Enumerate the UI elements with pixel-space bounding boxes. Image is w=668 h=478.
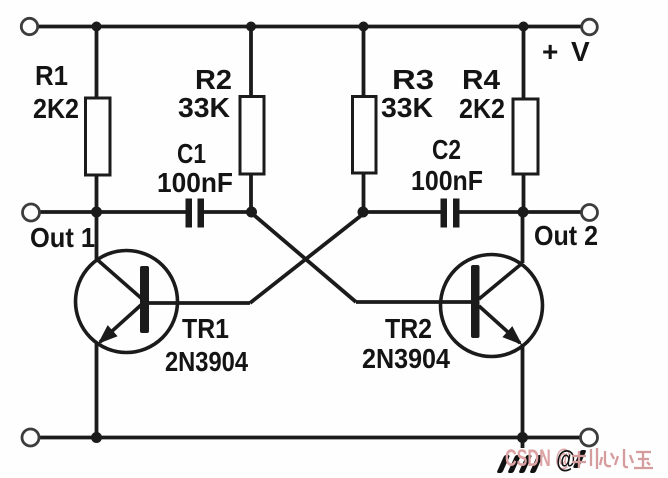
node B (R3/C2): [358, 207, 369, 218]
node A (R2/C1): [246, 207, 257, 218]
svg-text:@: @: [556, 446, 575, 474]
wire cross-couple diagonal node B to TR1 base: [250, 213, 365, 304]
wire Out1 rail left segment: [40, 210, 186, 214]
svg-text:R2: R2: [195, 64, 232, 95]
wire R3 bottom lead: [362, 173, 366, 212]
wire R1 bottom lead: [95, 175, 99, 212]
svg-text:33K: 33K: [381, 92, 433, 123]
node top R2: [246, 22, 256, 32]
terminal bottom left: [22, 429, 39, 446]
resistor R1: [86, 98, 111, 175]
wire TR2 emitter stub below rail: [521, 438, 525, 449]
svg-text:C1: C1: [177, 138, 206, 169]
wire top rail: [38, 25, 582, 29]
node top R3: [359, 22, 369, 32]
wire bottom rail: [39, 436, 581, 440]
wire R1 top lead: [95, 27, 99, 99]
transistor TR2: [441, 255, 543, 357]
resistor R3: [353, 97, 377, 174]
terminal bottom right: [581, 429, 598, 446]
svg-text:Out 2: Out 2: [534, 220, 598, 251]
node Out2 collector: [518, 207, 529, 218]
wire TR1 base horizontal: [149, 301, 250, 305]
terminal Out 1: [23, 204, 40, 221]
wire Out1 rail right segment (C1 to node): [204, 210, 252, 214]
wire cross-couple diagonal node A to TR2 base: [251, 213, 356, 303]
svg-text:2N3904: 2N3904: [362, 343, 450, 374]
capacitor C1: [186, 199, 205, 228]
wire R4 top lead: [522, 27, 526, 100]
svg-text:100nF: 100nF: [157, 167, 233, 198]
wire R2 top lead: [249, 27, 253, 98]
node bottom TR1 emitter: [91, 432, 102, 443]
svg-text:2N3904: 2N3904: [165, 346, 248, 377]
wire R2 bottom lead: [249, 174, 253, 212]
watermark black scribble stroke: [573, 450, 587, 468]
terminal top left: [21, 18, 37, 34]
svg-text:TR2: TR2: [385, 313, 432, 344]
svg-text:2K2: 2K2: [459, 93, 505, 124]
wire R3 top lead: [362, 27, 366, 98]
svg-text:100nF: 100nF: [411, 165, 483, 196]
resistor R2: [240, 97, 264, 175]
wire TR1 collector drop: [95, 212, 99, 261]
transistor TR1: [76, 251, 178, 353]
watermark hatch strokes: [496, 455, 543, 473]
svg-text:V: V: [571, 36, 590, 67]
svg-text:C2: C2: [432, 134, 461, 165]
terminal Out 2: [582, 205, 598, 221]
svg-text:R3: R3: [392, 64, 434, 95]
svg-text:R4: R4: [462, 64, 500, 95]
wire Out2 rail left segment (node to C2): [363, 210, 441, 214]
node bottom TR2 emitter: [517, 432, 528, 443]
node top R4: [519, 22, 529, 32]
wire R4 bottom lead: [522, 174, 526, 212]
node top R1: [92, 22, 102, 32]
svg-text:+: +: [542, 36, 558, 67]
node Out1 collector: [91, 207, 102, 218]
svg-text:Out 1: Out 1: [30, 222, 95, 253]
wire TR2 emitter drop: [521, 344, 525, 438]
wire TR1 emitter drop: [95, 342, 99, 438]
wire TR2 collector drop: [521, 212, 525, 263]
capacitor C2: [441, 199, 460, 228]
svg-text:R1: R1: [35, 60, 68, 91]
svg-text:2K2: 2K2: [33, 93, 79, 124]
wire TR2 base horizontal: [356, 300, 471, 304]
wire Out2 rail right segment: [460, 210, 582, 214]
watermark hanzi glyphs: [572, 448, 653, 469]
svg-text:33K: 33K: [178, 92, 230, 123]
svg-text:TR1: TR1: [182, 313, 229, 344]
terminal top right (+V): [582, 19, 598, 35]
resistor R4: [513, 99, 538, 174]
